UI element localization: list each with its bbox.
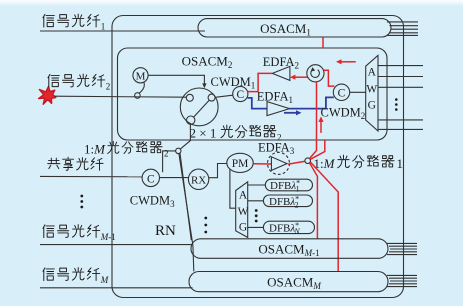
red wire C1 to EDFA2 <box>248 73 272 91</box>
red wire circulator to EDFA2 with left arrow <box>293 76 308 78</box>
OSACM M stadium <box>189 272 388 292</box>
blue wire EDFA1 to CWDM2 <box>290 97 334 108</box>
svg-text:-1: -1 <box>108 232 116 242</box>
svg-text:M: M <box>136 70 146 82</box>
wire RX to PM <box>209 164 227 178</box>
svg-text:DFBλ*N: DFBλ*N <box>269 221 300 236</box>
dots DFB column <box>255 209 258 222</box>
CWDM1 C circle <box>233 86 248 101</box>
svg-text:CWDM1: CWDM1 <box>211 75 256 91</box>
DFB laser N <box>263 221 314 233</box>
svg-text:OSACMM: OSACMM <box>267 274 321 291</box>
CWDM2 C circle <box>333 84 349 100</box>
splitter1 node <box>305 158 311 164</box>
wire 信号光纤M <box>40 287 193 289</box>
circulator <box>307 65 324 82</box>
label 信号光纤1 <box>43 14 105 31</box>
blue direction arrow right <box>284 112 298 114</box>
AWG2 <box>236 182 248 238</box>
wire 信号光纤2 <box>55 96 187 97</box>
monitor PM <box>227 153 253 172</box>
wire switch to C1 <box>215 95 233 97</box>
svg-text:W: W <box>366 84 377 96</box>
splitter2 fan to OSACM M <box>179 154 194 272</box>
svg-text:G: G <box>368 100 376 112</box>
amplifier EDFA2 <box>272 66 290 80</box>
dots AWG1 outputs <box>395 98 398 111</box>
red wire EDFA3 to splitter1 node <box>288 161 305 164</box>
DFB laser 1 <box>265 179 312 191</box>
svg-text:2: 2 <box>164 148 169 158</box>
label 共享光纤 <box>48 157 103 170</box>
svg-text:EDFA3: EDFA3 <box>258 140 295 156</box>
label 信号光纤M <box>43 268 109 285</box>
wire C2 to AWG1 <box>350 91 366 93</box>
wire 信号光纤1 <box>40 30 205 32</box>
red wire PM to EDFA3 <box>253 163 271 165</box>
red star fiber cut <box>39 87 56 105</box>
AWG1 <box>366 55 378 131</box>
inner box OSACM2 module <box>118 48 388 140</box>
svg-text:2: 2 <box>106 82 111 92</box>
svg-text:G: G <box>239 221 247 233</box>
svg-text:EDFA2: EDFA2 <box>263 55 299 71</box>
DFB laser 2 <box>263 195 312 207</box>
CWDM3 C circle <box>142 169 159 186</box>
label 1:M光分路器2 <box>84 141 169 158</box>
wire M to switch with arrow <box>148 75 204 84</box>
svg-text:EDFA1: EDFA1 <box>257 89 293 105</box>
amplifier EDFA1 <box>267 102 290 116</box>
wire PM to AWG2 <box>230 169 236 209</box>
svg-text:RX: RX <box>191 174 206 186</box>
red wire node to circulator <box>309 82 316 159</box>
svg-text:OSACM1: OSACM1 <box>260 21 311 38</box>
svg-text:DFBλ*1: DFBλ*1 <box>270 179 300 194</box>
OSACM1 output fiber bundle <box>387 22 418 36</box>
curve M to node <box>139 82 144 93</box>
svg-text:A: A <box>368 67 377 79</box>
splitter2 fan to OSACM M-1 <box>180 153 191 240</box>
wires AWG2 to DFB lasers <box>248 185 266 227</box>
svg-text:M: M <box>100 275 109 285</box>
label 2x1 光分路器2 <box>190 125 282 142</box>
svg-text:2 × 1: 2 × 1 <box>190 125 217 140</box>
dots below RN <box>204 217 207 234</box>
svg-text:CWDM2: CWDM2 <box>321 105 366 121</box>
OSACM M-1 stadium <box>191 239 388 258</box>
svg-text:PM: PM <box>232 158 249 170</box>
svg-text:RN: RN <box>155 223 176 239</box>
red stub OSACM1 to box <box>322 38 324 49</box>
svg-text:CWDM3: CWDM3 <box>130 193 175 209</box>
outer box RN <box>112 16 404 298</box>
node tap on fiber2 <box>135 93 141 99</box>
svg-text:DFBλ*2: DFBλ*2 <box>269 195 299 210</box>
red wire circulator to CWDM2 <box>324 70 334 86</box>
label 信号光纤M-1 <box>43 225 116 242</box>
label 1:M光分路器1 <box>314 155 404 171</box>
wire node to switch <box>180 125 190 149</box>
OSACM M-1 bundle <box>387 243 417 254</box>
OSACM1 stadium <box>198 19 391 37</box>
svg-text:1:M: 1:M <box>84 141 106 156</box>
wire node to CWDM3 <box>163 151 176 172</box>
svg-text:1: 1 <box>397 156 404 171</box>
svg-text:1: 1 <box>101 22 106 32</box>
splitter2 node <box>176 148 181 153</box>
svg-text:C: C <box>338 88 346 100</box>
svg-text:W: W <box>238 206 249 218</box>
label 信号光纤2 <box>48 74 110 91</box>
red wire node to OSACM M-1 <box>310 163 318 239</box>
red wire node to OSACM M <box>310 162 338 271</box>
AWG1 output fibers <box>378 66 423 130</box>
svg-text:C: C <box>236 89 244 101</box>
receiver RX <box>188 169 208 189</box>
OSACM M bundle <box>387 275 417 286</box>
svg-text:A: A <box>239 190 248 202</box>
wire 共享光纤 <box>40 175 143 177</box>
svg-text:OSACM2: OSACM2 <box>182 53 233 70</box>
wire 信号光纤M-1 <box>40 244 192 246</box>
dots left margin <box>80 195 83 209</box>
wire C3 to RX <box>160 177 189 179</box>
red direction arrow left (top) <box>340 61 356 63</box>
blue wire C1 to EDFA1 <box>248 98 267 109</box>
2x1 optical switch <box>180 88 218 126</box>
red up arrow <box>320 120 322 133</box>
red stub node to box bottom <box>310 140 325 159</box>
monitor M circle <box>133 68 148 83</box>
amplifier EDFA3 dashed <box>268 152 290 174</box>
svg-text:C: C <box>147 173 155 185</box>
